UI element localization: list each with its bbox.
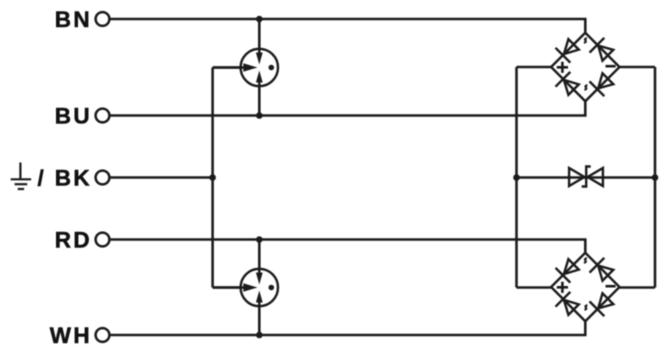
svg-text:WH: WH (50, 323, 92, 348)
svg-text:/: / (38, 166, 47, 191)
svg-text:BU: BU (55, 104, 92, 129)
svg-text:BK: BK (55, 166, 92, 191)
svg-text:RD: RD (55, 228, 92, 253)
svg-text:BN: BN (55, 7, 92, 32)
